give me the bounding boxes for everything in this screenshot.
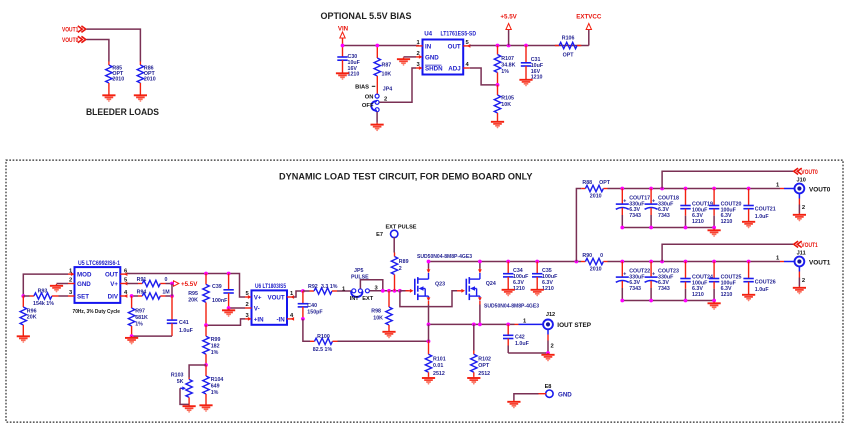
resistor R93 [23, 289, 68, 308]
svg-text:34.8K: 34.8K [501, 63, 515, 69]
svg-text:1%: 1% [211, 390, 219, 396]
oscillator U5 LTC6992IS6-1 body [75, 267, 121, 303]
connector J11 VOUT1 [776, 251, 831, 267]
power port +5.5V arrow right [172, 281, 198, 288]
svg-text:2010: 2010 [590, 266, 602, 272]
ground under R105 [491, 120, 504, 128]
node R87 top [375, 44, 379, 48]
svg-text:ON: ON [365, 94, 374, 100]
connector E8 GND [514, 384, 572, 400]
svg-text:E8: E8 [545, 384, 552, 390]
resistor R86 [137, 62, 156, 94]
connector E7 EXT PULSE [376, 225, 417, 253]
svg-text:Q24: Q24 [486, 281, 496, 287]
node DIV junction [130, 294, 134, 298]
svg-text:R102: R102 [478, 357, 491, 363]
svg-text:EXT: EXT [362, 296, 373, 302]
pin 1 VOUT [267, 291, 294, 301]
resistor R105 [494, 85, 514, 120]
wire VOUT1 to R86 [87, 29, 141, 61]
svg-text:R89: R89 [399, 259, 409, 265]
resistor R101 [425, 324, 445, 377]
resistor R95 [188, 274, 209, 326]
op-amp U4 LT1761ES5-SD body [423, 40, 464, 75]
pin 2 GND [416, 51, 439, 61]
wire VOUT0 to R85 [87, 40, 109, 62]
power port +5.5V top [500, 14, 517, 46]
resistor R96 [20, 296, 37, 335]
svg-text:V-: V- [254, 306, 260, 313]
svg-text:1%: 1% [211, 350, 219, 356]
svg-text:R107: R107 [501, 56, 514, 62]
svg-text:R98: R98 [371, 308, 381, 314]
pin J11-2 to ground [799, 266, 805, 286]
ground under bank1 rail [708, 302, 721, 310]
node VOUT junction [301, 289, 305, 293]
svg-text:7343: 7343 [658, 286, 670, 292]
ground under R96 [17, 335, 30, 343]
svg-text:1.0uF: 1.0uF [755, 214, 770, 220]
svg-text:U4: U4 [424, 31, 432, 38]
pin 3 SET [68, 290, 89, 300]
connector J10 VOUT0 [776, 178, 831, 194]
capacitor COUT26 [743, 262, 775, 294]
node R99 bottom junction [204, 363, 208, 367]
ground under C39 [222, 309, 235, 317]
resistor R88 [581, 180, 622, 199]
svg-text:EXT PULSE: EXT PULSE [385, 225, 416, 231]
svg-text:1.0uF: 1.0uF [755, 287, 770, 293]
capacitor C41 [132, 320, 194, 336]
node OUT rail junctions [204, 272, 230, 276]
svg-text:SUD50N04-8M8P-4GE3: SUD50N04-8M8P-4GE3 [484, 304, 539, 310]
wire source rail [429, 323, 515, 325]
svg-text:OPTIONAL 5.5V BIAS: OPTIONAL 5.5V BIAS [321, 10, 412, 21]
svg-text:C41: C41 [179, 320, 189, 326]
ground under R102 [467, 376, 480, 384]
wire JP5 pin3 to node [370, 290, 409, 292]
svg-text:R103: R103 [171, 373, 184, 379]
svg-text:150pF: 150pF [307, 310, 323, 316]
jumper JP5 [350, 268, 379, 302]
ground under R103 [183, 404, 196, 412]
ground under E8 wire [507, 400, 520, 408]
pin 4 ADJ [448, 62, 469, 72]
wire U4 GND to ground [404, 56, 417, 58]
svg-text:R105: R105 [501, 96, 514, 102]
svg-text:R104: R104 [211, 377, 224, 383]
svg-text:1%: 1% [501, 69, 509, 75]
svg-text:COUT26: COUT26 [755, 279, 776, 285]
svg-text:R93: R93 [38, 289, 48, 295]
svg-text:R91: R91 [137, 277, 147, 283]
svg-text:OPT: OPT [478, 363, 490, 369]
capacitor C31 [521, 46, 544, 81]
pin Q23 drain [427, 262, 431, 274]
svg-text:VIN: VIN [338, 26, 349, 33]
svg-text:R99: R99 [211, 337, 221, 343]
ground under C31 [519, 78, 532, 86]
svg-text:182: 182 [211, 344, 220, 350]
pin Q23 source [427, 297, 431, 324]
wire JP4 pin2 to SHDN [379, 68, 416, 102]
svg-text:100nF: 100nF [212, 298, 228, 304]
node R94 right junction [170, 294, 174, 298]
dashed demo-board box [6, 160, 843, 422]
svg-text:2512: 2512 [433, 371, 445, 377]
svg-text:2010: 2010 [144, 77, 156, 83]
svg-text:1210: 1210 [348, 72, 360, 78]
potentiometer R103 [171, 365, 206, 404]
ground at U5 GND [50, 284, 63, 292]
svg-text:V+: V+ [254, 295, 262, 302]
svg-text:+5.5V: +5.5V [181, 281, 198, 288]
svg-text:COUT21: COUT21 [755, 206, 776, 212]
svg-text:R97: R97 [135, 309, 145, 315]
svg-text:GND: GND [77, 281, 91, 288]
svg-text:1210: 1210 [721, 219, 733, 225]
ground under J11 [793, 286, 806, 294]
svg-text:C42: C42 [515, 334, 525, 340]
wire JP4 pin3 to ground [376, 112, 378, 123]
ground under bank0 rail [708, 229, 721, 237]
svg-text:2: 2 [417, 51, 420, 57]
svg-text:2: 2 [246, 302, 249, 308]
ground under COUT21 [742, 220, 755, 228]
wire C42 bottom to J12 ground [508, 352, 548, 354]
node R97 bottom junction [130, 334, 134, 338]
svg-text:INT: INT [350, 296, 360, 302]
wire drain rail [429, 261, 582, 263]
svg-text:DYNAMIC LOAD TEST CIRCUIT, FOR: DYNAMIC LOAD TEST CIRCUIT, FOR DEMO BOAR… [279, 170, 533, 181]
node SET junction [21, 294, 25, 298]
svg-text:BLEEDER LOADS: BLEEDER LOADS [86, 106, 159, 117]
ground under J10 [793, 213, 806, 221]
node ADJ junction [496, 83, 500, 87]
svg-text:10K: 10K [501, 102, 511, 108]
node bank1 bottom junctions [620, 299, 716, 303]
ground under R104 [199, 404, 212, 412]
pin Q24 source [478, 297, 482, 324]
power port VIN [338, 26, 349, 46]
wire U5 OUT rail [127, 274, 245, 298]
label BIAS [355, 85, 375, 91]
svg-text:J11: J11 [797, 251, 806, 257]
svg-text:C39: C39 [212, 284, 222, 290]
svg-text:70Hz, 3% Duty Cycle: 70Hz, 3% Duty Cycle [73, 309, 121, 315]
wire +5.5V node down to C41 [171, 284, 173, 297]
svg-text:MOD: MOD [77, 272, 92, 279]
pin 6 OUT (U5) [105, 268, 128, 278]
capacitor C35 [532, 262, 558, 293]
wire U6 V- to ground [229, 307, 245, 309]
svg-text:U5 LTC6992IS6-1: U5 LTC6992IS6-1 [78, 260, 120, 267]
svg-text:2010: 2010 [112, 77, 124, 83]
svg-text:VOUT1: VOUT1 [801, 242, 818, 249]
capacitor COUT20 [709, 189, 742, 228]
svg-text:OPT: OPT [563, 53, 575, 59]
pin J10-2 to ground [799, 193, 805, 213]
svg-text:GND: GND [558, 391, 572, 398]
pin 5 V+ (U5) [110, 278, 128, 288]
svg-text:J10: J10 [797, 178, 806, 184]
capacitor C40 [298, 291, 324, 319]
pin 3 +IN [245, 313, 264, 323]
svg-text:OUT: OUT [105, 272, 118, 279]
resistor R94 [132, 289, 172, 299]
wire riser to R88 [576, 189, 581, 262]
wire VOUT to node [294, 291, 303, 297]
resistor R90 [581, 253, 622, 272]
svg-text:+IN: +IN [254, 317, 264, 324]
svg-text:1210: 1210 [692, 219, 704, 225]
svg-text:SHDN: SHDN [425, 66, 443, 73]
ground under R85 [102, 94, 115, 102]
svg-text:0.01: 0.01 [433, 363, 443, 369]
svg-text:2: 2 [399, 266, 402, 272]
node J12 ground junction [546, 351, 550, 355]
svg-text:681K: 681K [135, 315, 148, 321]
svg-text:10K: 10K [382, 71, 392, 77]
ground under R98 [382, 330, 395, 338]
svg-text:5K: 5K [177, 379, 184, 385]
svg-text:1M: 1M [162, 289, 170, 295]
pin 3 SHDN [416, 62, 443, 72]
pin 4 -IN [276, 313, 294, 323]
power port EXTVCC [576, 14, 602, 46]
resistor R85 [106, 62, 125, 94]
node OUT junctions [496, 44, 528, 48]
pin Q24 drain [478, 262, 482, 274]
svg-text:2: 2 [802, 205, 805, 211]
op-amp U6 LT1803IS5 body [252, 290, 288, 324]
svg-text:SUD50N04-8M8P-4GE3: SUD50N04-8M8P-4GE3 [417, 254, 472, 260]
resistor R91 [127, 277, 172, 287]
svg-text:2512: 2512 [478, 371, 490, 377]
resistor R100 [310, 334, 429, 353]
svg-text:U6 LT1803IS5: U6 LT1803IS5 [255, 283, 286, 290]
node C39 bottom junction [227, 306, 231, 310]
resistor R102 [471, 324, 491, 377]
wire VOUT1 bank rail [622, 261, 780, 263]
node drain rail junctions [427, 260, 579, 264]
svg-text:0: 0 [165, 277, 168, 283]
node R100 sense junction [427, 339, 431, 343]
ground under C34 [502, 288, 515, 296]
wire Q24 gate feed [400, 291, 457, 307]
svg-text:154k 1%: 154k 1% [33, 301, 54, 307]
wire VOUT0 bank rail [622, 188, 780, 190]
capacitor C39 [212, 274, 234, 309]
resistor R97 [128, 296, 148, 336]
svg-text:2: 2 [69, 278, 72, 284]
svg-text:LT1761ES5-SD: LT1761ES5-SD [441, 31, 477, 38]
wire U5 GND to ground [57, 283, 69, 285]
svg-text:0: 0 [600, 253, 603, 259]
resistor R92 [303, 284, 352, 294]
svg-text:SET: SET [77, 294, 89, 301]
svg-text:OPT: OPT [599, 180, 611, 186]
svg-text:1210: 1210 [721, 292, 733, 298]
svg-text:IOUT STEP: IOUT STEP [557, 322, 591, 329]
ground under C30 [336, 72, 349, 80]
node +IN junction [204, 323, 208, 327]
pin 1 IN [416, 40, 432, 50]
svg-text:VOUT0: VOUT0 [809, 186, 831, 193]
svg-text:ADJ: ADJ [448, 66, 461, 73]
ground under COUT26 [742, 293, 755, 301]
svg-text:1.0uF: 1.0uF [515, 341, 530, 347]
svg-text:20K: 20K [188, 297, 198, 303]
svg-text:R92: R92 [308, 284, 318, 290]
port VOUT0 (bleeder) [62, 36, 86, 44]
resistor R89 [391, 253, 408, 291]
svg-text:2010: 2010 [590, 193, 602, 199]
resistor R104 [203, 365, 224, 404]
capacitor COUT18 [645, 189, 679, 228]
svg-text:+5.5V: +5.5V [500, 14, 517, 21]
wire ADJ to node [470, 68, 498, 85]
wire VOUT1 bank bottom rail [622, 300, 714, 302]
svg-text:1210: 1210 [692, 292, 704, 298]
svg-text:BIAS: BIAS [355, 85, 369, 91]
node VOUT0 rail junctions [620, 187, 750, 191]
svg-text:20K: 20K [27, 314, 37, 320]
svg-text:J12: J12 [546, 312, 555, 318]
svg-text:-IN: -IN [276, 317, 285, 324]
resistor R99 [203, 325, 221, 365]
ground under R101 [422, 376, 435, 384]
svg-text:GND: GND [425, 54, 439, 61]
svg-text:R88: R88 [582, 180, 592, 186]
node VOUT1 rail junctions [620, 260, 750, 264]
wire MOD to left node [23, 274, 68, 296]
svg-text:1.0uF: 1.0uF [179, 328, 194, 334]
svg-text:JP4: JP4 [383, 87, 392, 93]
svg-text:7343: 7343 [658, 213, 670, 219]
capacitor C42 [503, 324, 530, 353]
svg-text:E7: E7 [376, 232, 383, 238]
node bottom rail junctions [620, 226, 716, 230]
port VOUT0 (box) [662, 168, 818, 188]
svg-text:2: 2 [551, 344, 554, 350]
svg-text:R101: R101 [433, 357, 446, 363]
port VOUT1 (box) [662, 241, 818, 261]
wire VOUT0 bank bottom rail [622, 227, 714, 229]
capacitor C30 [337, 46, 360, 78]
svg-text:7343: 7343 [629, 286, 641, 292]
svg-text:R94: R94 [137, 289, 147, 295]
capacitor COUT17 [616, 189, 650, 228]
capacitor COUT25 [709, 262, 742, 301]
node gate row junctions [381, 289, 402, 293]
svg-text:C40: C40 [307, 303, 317, 309]
svg-text:JP5: JP5 [354, 268, 363, 274]
resistor R107 [494, 46, 515, 85]
ground under J12 [541, 353, 554, 361]
svg-text:IN: IN [425, 43, 432, 50]
pin 2 V- (U6) [245, 302, 260, 312]
node -IN junction [301, 317, 305, 321]
svg-text:VOUT: VOUT [267, 295, 284, 302]
node source rail junctions [427, 323, 511, 327]
node VIN junction [341, 44, 345, 48]
capacitor COUT22 [616, 262, 650, 301]
svg-text:VOUT1: VOUT1 [809, 259, 831, 266]
svg-text:OFF: OFF [362, 103, 374, 109]
svg-text:1%: 1% [135, 322, 143, 328]
svg-text:7343: 7343 [629, 213, 641, 219]
ground under JP4 [371, 123, 384, 131]
capacitor C34 [503, 262, 529, 293]
pin 5 OUT [448, 40, 471, 50]
svg-text:VOUT0: VOUT0 [801, 169, 818, 176]
transistor Q23 [400, 273, 445, 301]
svg-text:R100: R100 [317, 334, 330, 340]
svg-text:R106: R106 [562, 36, 575, 42]
resistor R87 [374, 46, 391, 95]
jumper JP4 [362, 87, 392, 112]
wire VIN rail [343, 45, 419, 47]
port VOUT1 (bleeder) [62, 26, 86, 34]
capacitor COUT19 [680, 189, 713, 228]
svg-text:VOUT1: VOUT1 [62, 27, 79, 34]
capacitor COUT23 [645, 262, 679, 301]
pin 5 V+ (U6) [245, 291, 262, 301]
svg-text:R87: R87 [382, 63, 392, 69]
svg-text:82.5 1%: 82.5 1% [313, 347, 333, 353]
ground under C35 [531, 288, 544, 296]
pin 4 DIV [108, 290, 128, 300]
capacitor COUT24 [680, 262, 713, 301]
svg-text:DIV: DIV [108, 294, 119, 301]
pin 2 GND (U5) [68, 278, 91, 288]
ground under R97 [125, 336, 138, 344]
svg-text:R90: R90 [582, 253, 592, 259]
svg-text:VOUT0: VOUT0 [62, 37, 79, 44]
svg-text:EXTVCC: EXTVCC [576, 14, 602, 21]
ground under R86 [134, 94, 147, 102]
pin J12-2 to ground [548, 329, 554, 353]
ground at U4 GND [397, 57, 410, 65]
svg-text:Q23: Q23 [435, 282, 445, 288]
resistor R98 [371, 291, 392, 330]
connector J12 IOUT STEP [515, 312, 592, 329]
pin 1 MOD [68, 268, 92, 278]
svg-text:649: 649 [211, 384, 220, 390]
node +5.5V junction [170, 282, 174, 286]
svg-text:2: 2 [802, 278, 805, 284]
wire -IN down to R100 [303, 319, 310, 341]
wire JP5 pin2 up-and-over [360, 280, 382, 291]
svg-text:10K: 10K [373, 315, 383, 321]
svg-text:OUT: OUT [448, 43, 461, 50]
svg-text:V+: V+ [110, 281, 118, 288]
wire +IN to node [206, 319, 245, 325]
svg-text:R95: R95 [188, 291, 198, 297]
svg-text:3.3 1%: 3.3 1% [321, 284, 338, 290]
resistor R106 [555, 36, 581, 59]
wire OUT rail [470, 45, 589, 47]
capacitor COUT21 [743, 189, 775, 221]
transistor Q24 [457, 273, 496, 301]
